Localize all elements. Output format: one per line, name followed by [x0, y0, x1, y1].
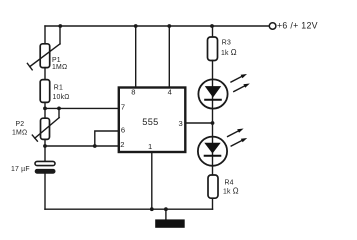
wire left rail top: [44, 26, 46, 44]
wire ground stub: [165, 209, 167, 219]
capacitor C1 plate bottom: [35, 169, 56, 174]
svg-text:P2: P2: [16, 121, 25, 128]
svg-text:1k Ω: 1k Ω: [221, 48, 237, 57]
svg-text:4: 4: [168, 87, 173, 96]
svg-text:R4: R4: [225, 179, 234, 186]
resistor R3: [208, 37, 218, 61]
node pin6 jog junction: [93, 144, 97, 148]
node top rail pin8: [134, 24, 138, 28]
svg-text:10kΩ: 10kΩ: [53, 94, 70, 101]
svg-text:7: 7: [121, 103, 126, 112]
svg-text:1MΩ: 1MΩ: [52, 64, 67, 71]
potentiometer P1: [27, 26, 60, 70]
svg-text:8: 8: [131, 87, 136, 96]
svg-text:P1: P1: [52, 57, 61, 64]
capacitor C1 plate top: [35, 161, 55, 165]
svg-text:1k Ω: 1k Ω: [223, 186, 239, 195]
LED D2: [198, 137, 227, 166]
node pin7 junction: [43, 107, 47, 111]
node ground stub: [164, 207, 168, 211]
svg-text:3: 3: [179, 119, 184, 128]
svg-text:1MΩ: 1MΩ: [12, 129, 27, 136]
LED D2 light arrow 1: [228, 129, 244, 137]
node pin1 bottom: [150, 207, 154, 211]
node top rail P1 wiper: [58, 24, 62, 28]
svg-text:17 µF: 17 µF: [11, 166, 30, 173]
svg-text:R1: R1: [54, 84, 63, 91]
svg-text:+6 /+ 12V: +6 /+ 12V: [277, 21, 318, 31]
wire pin 7: [45, 107, 119, 109]
wire R3 to LED chain: [212, 61, 214, 176]
wire R4 to bottom rail: [212, 198, 214, 209]
wire bottom rail: [45, 208, 213, 210]
wire pin 1 down: [151, 152, 153, 209]
wire R3 branch vertical: [212, 26, 214, 37]
svg-text:6: 6: [121, 125, 126, 134]
svg-text:R3: R3: [222, 39, 231, 46]
node top rail R3: [210, 24, 214, 28]
svg-text:1: 1: [148, 142, 153, 151]
LED D1 light arrow 1: [231, 74, 247, 82]
wire R1 to P2: [44, 102, 46, 118]
op-amp U1 555 timer box: [119, 88, 186, 153]
resistor R1: [40, 80, 50, 103]
svg-text:2: 2: [120, 140, 125, 149]
node P2 wiper junction: [57, 107, 61, 111]
potentiometer P2: [32, 108, 59, 141]
wire top supply rail: [45, 25, 269, 27]
node pin3 LED junction: [211, 121, 215, 125]
wire capacitor to bottom rail: [44, 174, 46, 210]
wire pin 8: [135, 26, 137, 88]
LED D2 light arrow 2: [231, 138, 247, 146]
node top rail pin4: [167, 24, 171, 28]
node pin2 junction: [43, 144, 47, 148]
svg-text:555: 555: [142, 117, 158, 127]
LED D1 light arrow 2: [234, 84, 250, 92]
wire pin 3: [185, 122, 212, 124]
wire jog to pin 6: [95, 131, 119, 146]
LED D1: [198, 79, 227, 108]
wire pin 2: [45, 145, 119, 147]
resistor R4: [208, 175, 218, 198]
wire pin 4: [168, 26, 170, 88]
wire P2 to capacitor: [44, 139, 46, 161]
power terminal: [269, 23, 276, 30]
ground: [155, 219, 185, 227]
wire P1 to R1: [44, 68, 46, 80]
